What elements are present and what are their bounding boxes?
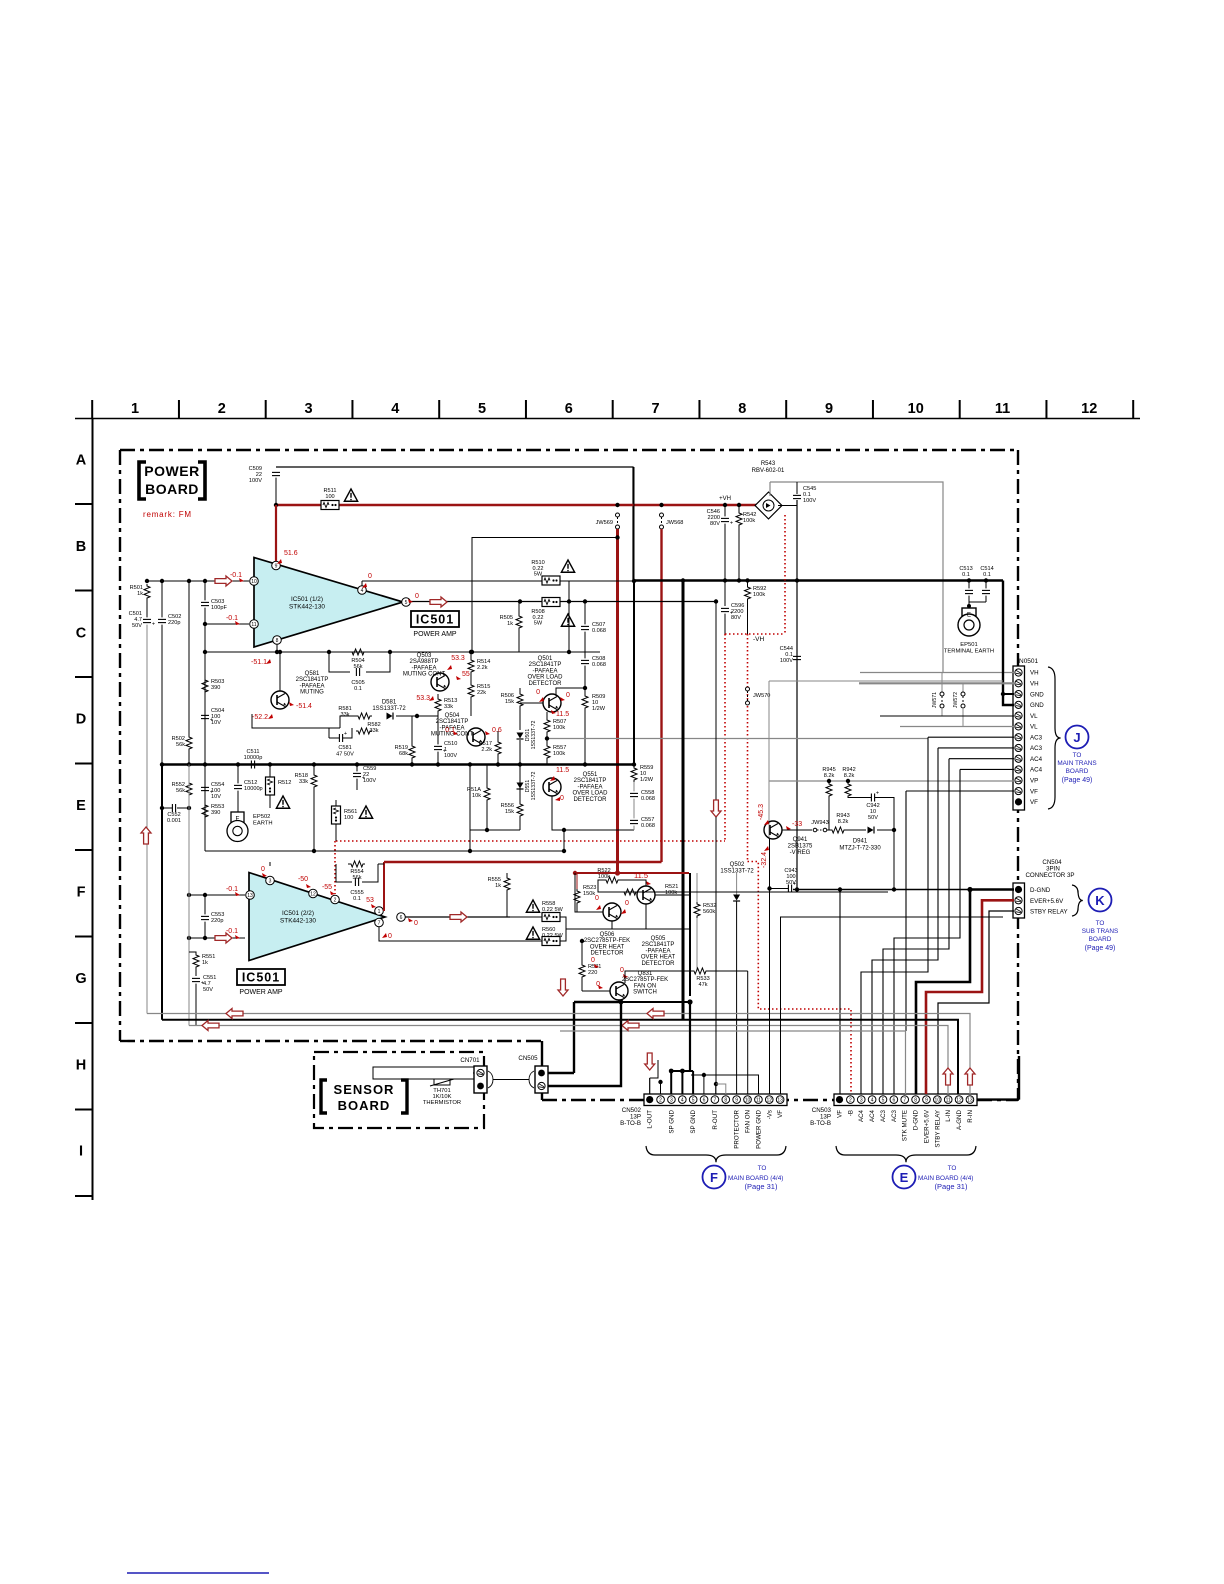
svg-text:+VH: +VH bbox=[719, 496, 731, 502]
svg-text:1/2W: 1/2W bbox=[592, 706, 606, 712]
capacitor C546 bbox=[707, 505, 733, 580]
rail L-OUT gray bbox=[147, 1014, 970, 1095]
svg-text:AC3: AC3 bbox=[1030, 745, 1043, 752]
pin 11 of IC501 bbox=[250, 620, 259, 629]
connector CN502 body bbox=[644, 1094, 787, 1106]
svg-text:JW570: JW570 bbox=[753, 693, 770, 699]
dark red cluster top wire bbox=[575, 872, 689, 874]
svg-text:VF: VF bbox=[1030, 799, 1038, 806]
wire input rail pin14 bbox=[189, 937, 245, 939]
svg-text:JW569: JW569 bbox=[596, 520, 613, 526]
svg-text:0.6: 0.6 bbox=[492, 727, 502, 734]
wire R521 out right bbox=[638, 891, 655, 893]
svg-text:Q551: Q551 bbox=[583, 772, 598, 778]
svg-text:THERMISTOR: THERMISTOR bbox=[423, 1100, 461, 1106]
svg-text:50V: 50V bbox=[203, 987, 213, 993]
arrow rail left 4 bbox=[622, 1021, 639, 1031]
svg-text:K: K bbox=[1095, 893, 1105, 908]
svg-text:R-OUT: R-OUT bbox=[712, 1110, 719, 1130]
resistor R503 bbox=[202, 678, 224, 694]
svg-text:TO: TO bbox=[948, 1165, 957, 1172]
arrow rail left 2 bbox=[202, 1021, 219, 1031]
wire x683 column thick bbox=[682, 581, 685, 1021]
svg-text:STK442-130: STK442-130 bbox=[289, 604, 325, 611]
wire Q831 emitter left thick bbox=[574, 1001, 619, 1003]
CN503 pin 6 AC3 bbox=[890, 1096, 898, 1104]
wire VH pin1 left ext bbox=[860, 672, 943, 674]
resistor R523 bbox=[574, 873, 596, 912]
pin 1 of IC501 bbox=[375, 907, 384, 916]
svg-text:AC4: AC4 bbox=[869, 1109, 876, 1122]
resistor R556 bbox=[501, 764, 523, 830]
svg-text:RBV-602-01: RBV-602-01 bbox=[752, 468, 785, 474]
svg-text:A: A bbox=[76, 453, 87, 469]
svg-text:9: 9 bbox=[825, 401, 833, 417]
svg-text:10V: 10V bbox=[211, 720, 221, 726]
N0501 pin 4 GND bbox=[1015, 701, 1022, 708]
thermistor TH701 bbox=[373, 1067, 474, 1106]
resistor R514 bbox=[468, 650, 490, 674]
diode D581 bbox=[372, 700, 406, 720]
capacitor C502 bbox=[158, 581, 181, 765]
resistor R560 box bbox=[542, 927, 564, 946]
svg-text:Q503: Q503 bbox=[417, 653, 432, 659]
CN503 pin 7 STK MUTE bbox=[901, 1096, 909, 1104]
svg-text:TO: TO bbox=[1096, 920, 1105, 927]
N0501 pin 5 VL bbox=[1015, 712, 1022, 719]
svg-text:-PAFAEA: -PAFAEA bbox=[300, 683, 325, 689]
node input dots bbox=[145, 579, 207, 583]
svg-text:MUTING CONT: MUTING CONT bbox=[403, 672, 446, 678]
svg-text:Q504: Q504 bbox=[445, 713, 460, 719]
svg-text:560k: 560k bbox=[703, 909, 715, 915]
svg-text:F: F bbox=[710, 1170, 718, 1185]
svg-text:JW572: JW572 bbox=[953, 692, 959, 708]
svg-text:56k: 56k bbox=[352, 875, 361, 881]
IC501 label box 2 bbox=[237, 969, 285, 985]
capacitor C504 bbox=[201, 708, 224, 765]
svg-text:OVER LOAD: OVER LOAD bbox=[572, 791, 608, 797]
svg-text:6: 6 bbox=[703, 1098, 706, 1104]
connector CN504 body bbox=[1013, 883, 1025, 918]
thin box around regulator bbox=[769, 680, 1003, 682]
svg-text:100V: 100V bbox=[780, 658, 793, 664]
svg-text:BOARD: BOARD bbox=[1066, 768, 1089, 775]
svg-text:VL: VL bbox=[1030, 713, 1038, 720]
svg-text:AC4: AC4 bbox=[1030, 767, 1043, 774]
CN502 pin 10 FAN ON bbox=[744, 1096, 752, 1104]
node JW568 top bbox=[659, 503, 663, 507]
CN504 brace bbox=[1072, 885, 1083, 916]
pin 7 of IC501 bbox=[375, 918, 384, 927]
svg-text:D-GND: D-GND bbox=[1030, 887, 1051, 894]
svg-text:5W: 5W bbox=[534, 572, 543, 578]
resistor R561 box bbox=[332, 800, 358, 841]
svg-text:2: 2 bbox=[849, 1098, 852, 1104]
connector CN505 bbox=[518, 1055, 548, 1093]
svg-text:1SS133T-72: 1SS133T-72 bbox=[531, 771, 537, 800]
wire -VH dotted branch x747 bbox=[747, 634, 749, 862]
svg-text:0: 0 bbox=[595, 895, 599, 902]
power board border bottom jog bbox=[541, 1041, 543, 1100]
grid row ticks bbox=[75, 504, 93, 1196]
svg-text:11: 11 bbox=[995, 401, 1010, 417]
CN504 pin 3 STBY RELAY bbox=[1015, 907, 1022, 914]
svg-text:220p: 220p bbox=[168, 620, 180, 626]
svg-text:13: 13 bbox=[967, 1098, 973, 1104]
IC501 label box bbox=[411, 611, 459, 627]
wire gray VH to N0501 bbox=[770, 482, 1014, 673]
CN503 pin 3 AC4 bbox=[857, 1096, 865, 1104]
svg-text:2: 2 bbox=[659, 1098, 662, 1104]
svg-text:51.6: 51.6 bbox=[284, 550, 298, 557]
CN503 pin 2 -B bbox=[847, 1096, 855, 1104]
N0501 pin 9 AC4 bbox=[1015, 755, 1022, 762]
wire pin8 stub bbox=[276, 644, 278, 652]
svg-text:8.2k: 8.2k bbox=[838, 819, 849, 825]
mid bus dots bbox=[160, 762, 636, 766]
connector ref J circle bbox=[1066, 726, 1089, 749]
svg-text:53.3: 53.3 bbox=[451, 655, 465, 662]
svg-text:GND: GND bbox=[1030, 691, 1044, 698]
wire D941 node down bbox=[893, 830, 895, 890]
svg-text:4: 4 bbox=[361, 588, 364, 594]
wire POWER GND feed bbox=[691, 1075, 759, 1094]
resistor R516 bbox=[467, 764, 490, 830]
svg-text:2SB1375: 2SB1375 bbox=[788, 844, 813, 850]
svg-text:J: J bbox=[1073, 730, 1080, 745]
svg-text:5: 5 bbox=[405, 600, 408, 606]
resistor R505 bbox=[500, 602, 522, 652]
svg-text:12: 12 bbox=[956, 1098, 962, 1104]
N0501 pin 10 AC4 bbox=[1015, 766, 1022, 773]
wire pin7 pin8 jog bbox=[716, 1084, 726, 1094]
resistor R531 bbox=[579, 939, 601, 991]
svg-text:390: 390 bbox=[211, 685, 220, 691]
arrow down CN502 bbox=[645, 1053, 655, 1070]
svg-text:13: 13 bbox=[777, 1098, 783, 1104]
svg-text:FAN ON: FAN ON bbox=[745, 1110, 752, 1133]
wire Q831 emitter bbox=[619, 1000, 690, 1002]
pin 6 of IC501 bbox=[397, 913, 406, 922]
svg-text:100V: 100V bbox=[363, 778, 376, 784]
resistor R559 bbox=[631, 764, 654, 783]
svg-text:C: C bbox=[76, 625, 87, 641]
resistor R553 bbox=[202, 803, 224, 851]
svg-text:VF: VF bbox=[1030, 788, 1038, 795]
svg-text:0.1: 0.1 bbox=[983, 572, 991, 578]
svg-text:100V: 100V bbox=[444, 753, 457, 759]
svg-text:Q941: Q941 bbox=[793, 837, 808, 843]
transistor Q503 bbox=[403, 653, 449, 691]
wire pin2 feed bbox=[660, 1082, 662, 1094]
svg-text:Q831: Q831 bbox=[638, 971, 653, 977]
svg-text:-V REG: -V REG bbox=[790, 850, 811, 856]
svg-text:33k: 33k bbox=[369, 728, 378, 734]
arrow rail left 3 bbox=[647, 1009, 664, 1019]
svg-text:100k: 100k bbox=[743, 518, 755, 524]
svg-text:15k: 15k bbox=[505, 699, 514, 705]
svg-text:9: 9 bbox=[735, 1098, 738, 1104]
CN503 pin 11 L-IN bbox=[944, 1096, 952, 1104]
svg-text:(Page 31): (Page 31) bbox=[745, 1182, 778, 1191]
svg-text:CONNECTOR 3P: CONNECTOR 3P bbox=[1025, 872, 1074, 879]
capacitor C942 bbox=[848, 791, 894, 831]
svg-text:H: H bbox=[76, 1057, 86, 1073]
pin 10 of IC501 bbox=[250, 577, 259, 586]
rail STK MUTE gray bbox=[560, 1031, 906, 1094]
arrow up left bbox=[141, 827, 151, 844]
wire Q831 collector fan bbox=[625, 971, 666, 983]
CN502 pin 6 bbox=[700, 1096, 708, 1104]
svg-text:B-TO-B: B-TO-B bbox=[620, 1120, 641, 1127]
wire R510 feed line bbox=[362, 580, 634, 582]
svg-text:2.2k: 2.2k bbox=[481, 747, 492, 753]
svg-text:56k: 56k bbox=[176, 788, 185, 794]
warning R561 bbox=[359, 806, 372, 818]
svg-text:A-GND: A-GND bbox=[956, 1109, 963, 1129]
svg-text:10V: 10V bbox=[211, 794, 221, 800]
svg-text:11: 11 bbox=[946, 1098, 951, 1104]
transistor Q581 bbox=[271, 671, 328, 709]
svg-text:TO: TO bbox=[758, 1165, 767, 1172]
svg-text:0: 0 bbox=[560, 795, 564, 802]
svg-text:0.068: 0.068 bbox=[592, 662, 606, 668]
wire D501 bottom bbox=[519, 740, 521, 765]
wire R507 junction rail gray bbox=[547, 738, 928, 740]
node D-GND bbox=[967, 887, 972, 892]
wire VF pin13 drop bbox=[839, 890, 841, 1095]
node junction +VH bbox=[274, 503, 278, 507]
svg-text:CN505: CN505 bbox=[518, 1055, 538, 1062]
capacitor C596 bbox=[721, 580, 744, 634]
warning mark R511 bbox=[344, 489, 357, 501]
connector CN503 body bbox=[834, 1094, 977, 1106]
svg-text:EP501: EP501 bbox=[960, 642, 977, 648]
svg-text:100V: 100V bbox=[803, 498, 816, 504]
svg-text:3: 3 bbox=[860, 1098, 863, 1104]
wire red drop to pin 9 bbox=[275, 505, 277, 561]
capacitor C551 bbox=[192, 975, 216, 1026]
CN502 pin 4 bbox=[679, 1096, 687, 1104]
svg-text:-52.2: -52.2 bbox=[252, 714, 268, 721]
svg-text:D941: D941 bbox=[853, 839, 868, 845]
svg-text:POWER AMP: POWER AMP bbox=[413, 631, 457, 638]
wire STBY RELAY run bbox=[938, 911, 1014, 1094]
svg-text:53.3: 53.3 bbox=[416, 695, 430, 702]
wire pin3 up bbox=[269, 862, 271, 866]
diode D502 bbox=[720, 862, 754, 1094]
svg-text:50V: 50V bbox=[132, 623, 142, 629]
svg-text:2SC1841TP: 2SC1841TP bbox=[642, 942, 675, 948]
wire pin11 feedback bbox=[205, 623, 249, 625]
op-amp IC501 (2/2) STK442-130 bbox=[249, 873, 385, 961]
svg-text:IC501: IC501 bbox=[416, 613, 454, 627]
arrow up R-IN bbox=[965, 1068, 975, 1085]
N0501 pin 2 VH bbox=[1015, 680, 1022, 687]
svg-text:12: 12 bbox=[766, 1098, 772, 1104]
svg-text:7: 7 bbox=[714, 1098, 717, 1104]
svg-text:0: 0 bbox=[388, 933, 392, 940]
svg-text:7: 7 bbox=[903, 1098, 906, 1104]
svg-text:D: D bbox=[76, 712, 86, 728]
resistor R557 bbox=[544, 739, 566, 765]
svg-text:TERMINAL EARTH: TERMINAL EARTH bbox=[944, 649, 994, 655]
svg-text:L-OUT: L-OUT bbox=[647, 1110, 654, 1129]
arrow rail left 1 bbox=[226, 1009, 243, 1019]
svg-text:2SC1841TP: 2SC1841TP bbox=[436, 719, 469, 725]
wire pin5 output bbox=[410, 601, 716, 603]
diode D941 zener bbox=[788, 827, 897, 857]
connector ref F circle bbox=[703, 1166, 726, 1189]
connector ref K circle bbox=[1089, 889, 1112, 912]
svg-text:VF: VF bbox=[837, 1110, 844, 1118]
svg-text:+: + bbox=[876, 791, 879, 797]
wire FAN ON drop bbox=[747, 971, 749, 1094]
resistor R518 bbox=[295, 764, 317, 851]
wire pin4 riser bbox=[361, 581, 363, 586]
resistor R506 bbox=[501, 692, 523, 708]
svg-text:1/2W: 1/2W bbox=[640, 777, 654, 783]
warning R560 bbox=[526, 927, 539, 939]
transistor Q941 bbox=[764, 821, 782, 839]
svg-text:0: 0 bbox=[414, 920, 418, 927]
wire -VH dotted jog bbox=[748, 862, 852, 1095]
svg-text:100k: 100k bbox=[553, 725, 565, 731]
wire top rail from C509 bbox=[276, 467, 633, 580]
resistor R507 bbox=[544, 712, 566, 739]
power board border left bbox=[119, 450, 121, 1041]
svg-text:33k: 33k bbox=[340, 712, 349, 718]
resistor R582 bbox=[356, 722, 381, 734]
svg-text:EARTH: EARTH bbox=[253, 821, 273, 827]
svg-text:15k: 15k bbox=[505, 809, 514, 815]
wire Q551 emitter down bbox=[552, 796, 564, 830]
svg-text:SUB TRANS: SUB TRANS bbox=[1082, 928, 1118, 935]
wire AC4 pin10 run bbox=[960, 768, 1014, 770]
svg-text:-PAFAEA: -PAFAEA bbox=[533, 668, 558, 674]
svg-text:Q506: Q506 bbox=[600, 932, 615, 938]
svg-text:1k: 1k bbox=[137, 591, 143, 597]
svg-text:+: + bbox=[344, 731, 347, 737]
svg-text:VL: VL bbox=[1030, 724, 1038, 731]
CN502 pin 13 VF bbox=[776, 1096, 784, 1104]
svg-text:12: 12 bbox=[1081, 401, 1097, 417]
arrow output 2 bbox=[450, 912, 467, 922]
wire lower rail y851 bbox=[205, 850, 564, 852]
svg-text:JW571: JW571 bbox=[932, 692, 938, 708]
wire thermistor to CN701 bbox=[473, 1072, 474, 1074]
wire cluster internals bbox=[646, 904, 690, 929]
svg-text:FAN ON: FAN ON bbox=[634, 983, 656, 989]
CN502 pin 11 POWER GND bbox=[755, 1096, 763, 1104]
node GND stub bbox=[1001, 692, 1005, 696]
svg-text:SENSOR: SENSOR bbox=[334, 1082, 395, 1097]
wire Q581 base rail bbox=[252, 714, 340, 728]
svg-text:11.5: 11.5 bbox=[556, 767, 569, 774]
svg-text:7: 7 bbox=[378, 921, 381, 927]
svg-text:-51.4: -51.4 bbox=[296, 703, 312, 710]
wire -VH dotted rail 2 bbox=[725, 633, 785, 635]
pin 9 of IC501 bbox=[272, 561, 281, 570]
svg-text:150k: 150k bbox=[583, 891, 595, 897]
svg-text:DETECTOR: DETECTOR bbox=[529, 681, 563, 687]
resistor R558 box bbox=[542, 901, 564, 922]
CN503 pin 5 AC3 bbox=[879, 1096, 887, 1104]
wire diamond to C545 column bbox=[778, 505, 797, 507]
svg-text:3: 3 bbox=[269, 879, 272, 885]
svg-text:8.2k: 8.2k bbox=[824, 773, 835, 779]
wire feedback column x205 bbox=[204, 624, 206, 851]
svg-text:+: + bbox=[152, 622, 155, 628]
wire R504 box bbox=[329, 652, 350, 672]
svg-text:6: 6 bbox=[400, 915, 403, 921]
jumper JW569 bbox=[596, 513, 620, 529]
svg-text:220: 220 bbox=[588, 970, 597, 976]
svg-text:8.2k: 8.2k bbox=[844, 773, 855, 779]
wire PROTECTOR feed bbox=[736, 1093, 738, 1095]
svg-text:1k: 1k bbox=[202, 960, 208, 966]
node x683 dots bbox=[611, 921, 613, 929]
resistor R509 bbox=[582, 694, 606, 765]
svg-text:B-TO-B: B-TO-B bbox=[810, 1120, 831, 1127]
svg-text:R543: R543 bbox=[761, 461, 776, 467]
transistor Q501 bbox=[543, 694, 561, 712]
svg-text:OVER HEAT: OVER HEAT bbox=[641, 955, 676, 961]
svg-text:1SS133T-72: 1SS133T-72 bbox=[372, 706, 406, 712]
svg-text:F: F bbox=[77, 885, 86, 901]
resistor R513 bbox=[435, 694, 457, 716]
capacitor C509 bbox=[249, 466, 280, 505]
svg-text:10: 10 bbox=[251, 579, 257, 585]
svg-text:100pF: 100pF bbox=[211, 605, 227, 611]
svg-text:4: 4 bbox=[391, 401, 399, 417]
jumper JW943 bbox=[782, 820, 829, 832]
wire feedback box x472 bbox=[472, 538, 618, 653]
svg-text:22k: 22k bbox=[477, 690, 486, 696]
svg-text:2SC1841TP: 2SC1841TP bbox=[574, 778, 607, 784]
svg-text:1SS133T-72: 1SS133T-72 bbox=[720, 869, 754, 875]
svg-text:8: 8 bbox=[724, 1098, 727, 1104]
svg-text:100k: 100k bbox=[753, 592, 765, 598]
CN503 pin 10 STBY RELAY bbox=[934, 1096, 942, 1104]
svg-text:Q502: Q502 bbox=[730, 862, 745, 868]
svg-text:2SC1841TP: 2SC1841TP bbox=[529, 662, 562, 668]
wire dark red bottom jog bbox=[384, 861, 662, 864]
capacitor C545 bbox=[793, 486, 816, 504]
svg-text:8: 8 bbox=[276, 638, 279, 644]
svg-text:100: 100 bbox=[344, 815, 353, 821]
wire R554 to red column bbox=[378, 863, 384, 865]
svg-text:0.22 5W: 0.22 5W bbox=[542, 907, 564, 913]
capacitor C553 bbox=[201, 893, 224, 938]
svg-text:DETECTOR: DETECTOR bbox=[574, 797, 608, 803]
capacitor C513 bbox=[959, 566, 973, 602]
wire Q501 collector bbox=[556, 688, 585, 696]
N0501 brace bbox=[1048, 667, 1061, 809]
svg-text:L-IN: L-IN bbox=[945, 1110, 952, 1122]
wire C545 riser bbox=[769, 482, 771, 496]
svg-text:100: 100 bbox=[325, 494, 334, 500]
resistor R517 bbox=[479, 731, 501, 765]
svg-text:2.2k: 2.2k bbox=[477, 665, 488, 671]
CN504 pin 2 EVER+5.6V bbox=[1015, 897, 1022, 904]
svg-text:390: 390 bbox=[211, 810, 220, 816]
N0501 pin 12 VF bbox=[1015, 787, 1022, 794]
wire input rail pin13 bbox=[189, 894, 245, 896]
svg-text:100V: 100V bbox=[249, 478, 262, 484]
svg-text:80V: 80V bbox=[731, 615, 741, 621]
